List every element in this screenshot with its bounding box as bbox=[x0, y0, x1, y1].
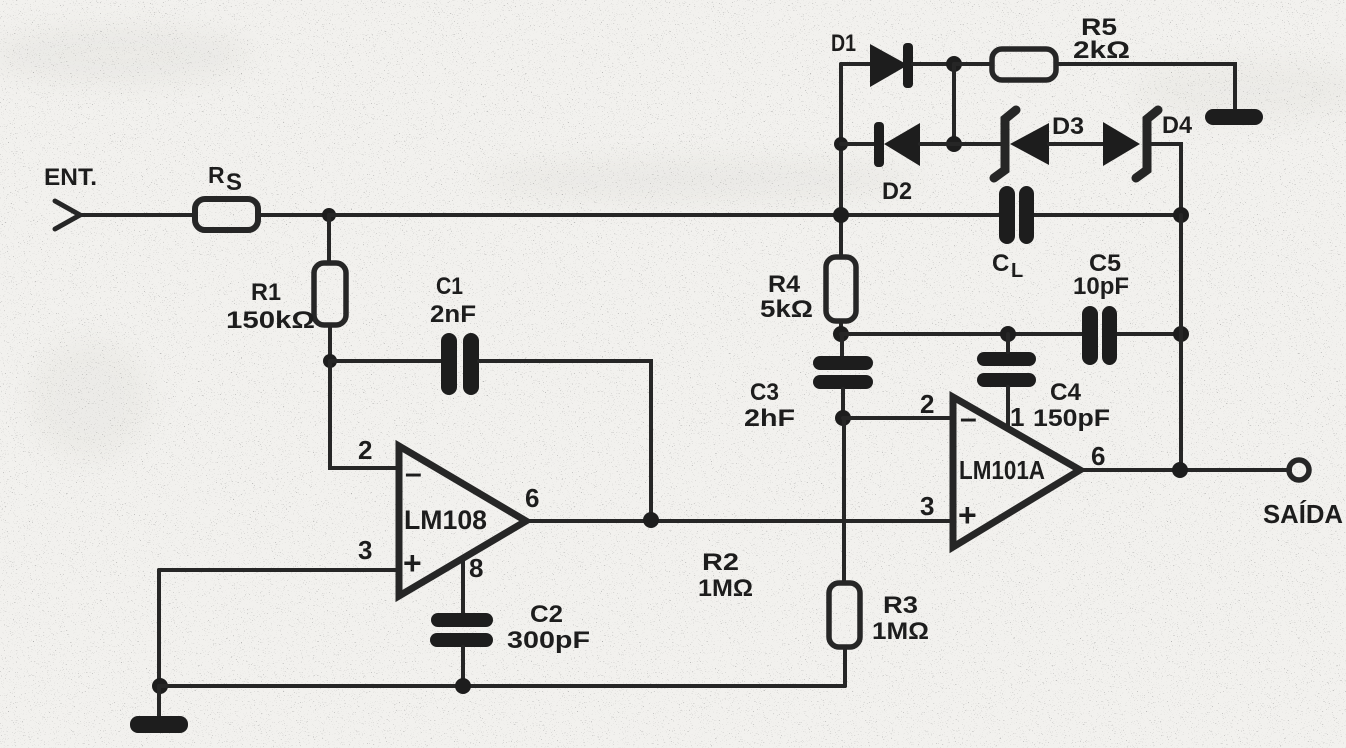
wire D1 cathode to node D bbox=[913, 62, 954, 66]
wire node H to C5 left plate bbox=[841, 332, 1083, 336]
wire D2 row left segment bbox=[841, 142, 877, 146]
ground bbox=[130, 686, 188, 733]
resistor R3 bbox=[829, 583, 860, 647]
wire C4 top bbox=[1006, 334, 1010, 352]
wire R4 to node H bbox=[839, 321, 843, 334]
input terminal ENT. arrow bbox=[55, 201, 80, 229]
wire pin 3 LM108 bbox=[159, 568, 397, 572]
svg-text:+: + bbox=[958, 497, 977, 533]
wire C3 to node I bbox=[841, 389, 845, 418]
resistor R4 bbox=[826, 257, 856, 321]
svg-text:2nF: 2nF bbox=[430, 301, 476, 328]
output terminal circle SAIDA bbox=[1289, 460, 1309, 480]
svg-text:+: + bbox=[403, 545, 422, 581]
wire right vertical lower bbox=[1179, 334, 1183, 470]
wire node H down to C3 bbox=[840, 334, 844, 356]
wire D4 to right vertical corner bbox=[1152, 144, 1181, 215]
op-amp U1 LM108 bbox=[399, 446, 526, 596]
node D (D1/R5 junction) bbox=[946, 56, 962, 72]
svg-text:3: 3 bbox=[358, 535, 372, 565]
capacitor C1 plates bbox=[441, 333, 479, 395]
node main-R4 bbox=[833, 207, 849, 223]
svg-text:C3: C3 bbox=[750, 379, 779, 406]
resistor R1 bbox=[314, 263, 346, 325]
resistor R5 bbox=[992, 49, 1056, 80]
wire R3 to ground rail bbox=[843, 647, 847, 686]
op-amp U2 LM101A bbox=[953, 397, 1080, 547]
svg-text:R1: R1 bbox=[251, 279, 281, 306]
svg-text:R2: R2 bbox=[702, 549, 739, 576]
node output junction bbox=[1172, 462, 1188, 478]
svg-text:1MΩ: 1MΩ bbox=[872, 618, 929, 645]
wire main junction down to R4 bbox=[839, 215, 843, 257]
node I (pin2 junction) bbox=[835, 410, 851, 426]
wire C5 right plate to right vertical bbox=[1116, 332, 1181, 336]
wire D2 to node E bbox=[920, 142, 954, 146]
node D2-left bbox=[834, 137, 848, 151]
wire right vertical mid bbox=[1179, 215, 1183, 334]
wire pin 2 LM101A bbox=[843, 416, 951, 420]
wire node B to C1 left plate bbox=[330, 359, 442, 363]
wire node B down to pin 2 bbox=[330, 361, 397, 468]
svg-text:3: 3 bbox=[920, 491, 934, 521]
svg-text:–: – bbox=[405, 457, 422, 490]
svg-text:1: 1 bbox=[1010, 402, 1024, 432]
diode D2 bbox=[874, 122, 920, 167]
svg-text:C2: C2 bbox=[530, 601, 563, 628]
capacitor C5 plates bbox=[1082, 306, 1117, 365]
wire C2 to ground rail bbox=[461, 647, 465, 686]
svg-text:S: S bbox=[226, 169, 242, 196]
wire C1 right plate to feedback corner bbox=[479, 361, 651, 520]
svg-text:C4: C4 bbox=[1050, 379, 1082, 406]
node C4 top bbox=[1000, 326, 1016, 342]
svg-text:D1: D1 bbox=[831, 30, 856, 57]
svg-text:L: L bbox=[1011, 260, 1023, 282]
wire LM108 output to LM101A pin 3 bbox=[526, 519, 953, 523]
wire diode network left vertical bbox=[839, 64, 843, 215]
wire node E to D3 bbox=[954, 142, 1002, 146]
node right-main (CL right junction) bbox=[1173, 207, 1189, 223]
svg-text:D2: D2 bbox=[882, 178, 912, 205]
capacitor CL plates bbox=[999, 186, 1034, 244]
wire main line to CL left plate bbox=[841, 213, 1000, 217]
wire D1 anode bbox=[841, 62, 872, 66]
svg-text:8: 8 bbox=[469, 553, 483, 583]
wire LM101A output bbox=[1080, 468, 1290, 472]
capacitor C3 plates bbox=[813, 356, 873, 389]
wire pin 8 LM108 down to C2 bbox=[461, 557, 465, 613]
svg-text:2: 2 bbox=[358, 435, 372, 465]
wire RS to node A bbox=[258, 213, 329, 217]
node F (feedback tap on output) bbox=[643, 512, 659, 528]
wire node A down to R1 bbox=[327, 215, 331, 263]
node right-mid (C5 right junction) bbox=[1173, 326, 1189, 342]
wire node D to R5 bbox=[954, 62, 992, 66]
svg-text:5kΩ: 5kΩ bbox=[760, 296, 813, 323]
wire CL right plate to right vertical bbox=[1033, 213, 1181, 217]
svg-text:ENT.: ENT. bbox=[44, 164, 97, 191]
node A (input junction) bbox=[322, 208, 336, 222]
wire bottom ground rail bbox=[159, 684, 845, 688]
wire input to RS bbox=[79, 213, 195, 217]
wire D3 to D4 bbox=[1049, 142, 1103, 146]
svg-text:1MΩ: 1MΩ bbox=[698, 575, 753, 602]
svg-text:300pF: 300pF bbox=[507, 627, 590, 654]
node B (feedback junction) bbox=[323, 354, 337, 368]
svg-text:D3: D3 bbox=[1052, 113, 1084, 140]
svg-text:6: 6 bbox=[525, 483, 539, 513]
capacitor C2 plates bbox=[430, 613, 493, 647]
svg-text:–: – bbox=[960, 402, 977, 435]
node C2-ground bbox=[455, 678, 471, 694]
diode D3 (zener) bbox=[994, 110, 1049, 178]
svg-text:LM101A: LM101A bbox=[959, 455, 1045, 485]
svg-text:SAÍDA: SAÍDA bbox=[1263, 499, 1343, 529]
node H (R4/C3/C5 junction) bbox=[833, 326, 849, 342]
svg-text:C: C bbox=[992, 250, 1009, 277]
svg-text:D4: D4 bbox=[1162, 112, 1193, 139]
resistor RS bbox=[195, 199, 258, 230]
wire node D down to D2 row bbox=[952, 64, 956, 144]
svg-text:R3: R3 bbox=[883, 592, 918, 619]
wire node I down to R3 bbox=[842, 418, 846, 583]
svg-text:C1: C1 bbox=[436, 273, 463, 300]
svg-text:10pF: 10pF bbox=[1073, 273, 1129, 300]
node G (ground junction) bbox=[152, 678, 168, 694]
svg-text:150pF: 150pF bbox=[1033, 405, 1110, 432]
node E (D2/D3 junction) bbox=[946, 136, 962, 152]
capacitor C4 plates bbox=[977, 352, 1036, 387]
svg-text:R: R bbox=[208, 162, 225, 188]
wire R5 to right corner bbox=[1056, 64, 1235, 112]
svg-text:150kΩ: 150kΩ bbox=[226, 307, 315, 334]
diode D1 bbox=[870, 43, 913, 88]
svg-text:LM108: LM108 bbox=[404, 505, 487, 535]
svg-text:6: 6 bbox=[1091, 441, 1105, 471]
diode D4 (zener) bbox=[1103, 110, 1158, 178]
svg-text:2hF: 2hF bbox=[744, 405, 795, 432]
wire R1 to node B bbox=[328, 325, 332, 361]
wire node A to diode-network vertical bbox=[329, 213, 841, 217]
svg-text:2: 2 bbox=[920, 389, 934, 419]
wire pin3 vertical down to ground node bbox=[157, 570, 161, 686]
wire C4 to pin 1 bbox=[1006, 387, 1010, 430]
svg-text:R4: R4 bbox=[768, 271, 801, 298]
svg-text:2kΩ: 2kΩ bbox=[1073, 37, 1130, 64]
terminal bar (R5 end pad) bbox=[1205, 109, 1263, 125]
